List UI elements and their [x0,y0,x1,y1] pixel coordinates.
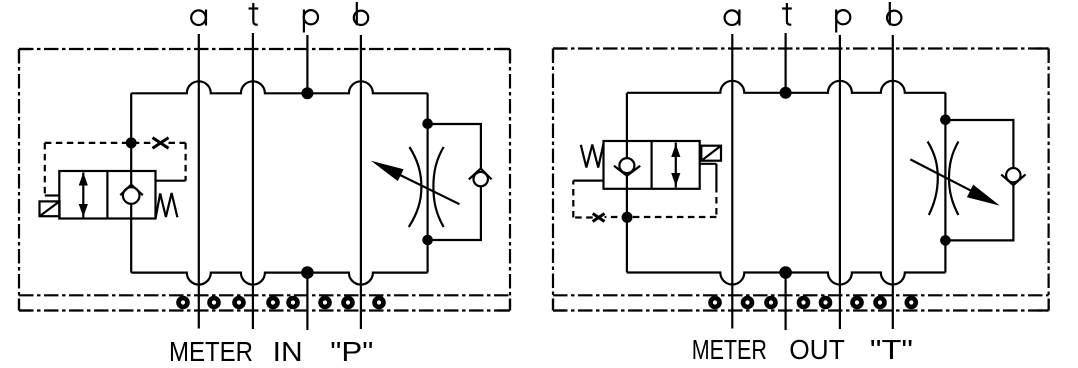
node: branch top [940,115,951,126]
check valve (bypass) [1001,168,1025,185]
port line b [360,35,362,329]
outer boundary (manifold envelope, dash-dot) [19,49,510,311]
outer boundary corner ticks [19,49,510,311]
node: t to top edge [780,87,792,99]
port line p (interrupted inside envelope) [306,35,308,330]
svg-text:"P": "P" [330,336,373,367]
port line b [892,35,894,329]
inner envelope left edge / valve flow line [130,93,132,272]
inner envelope left edge / valve flow line [626,93,628,273]
mounting-face line (dash-dot) [553,294,1049,296]
port letter a [725,10,740,26]
port letter a [191,10,206,26]
pilot connection to valve left side [45,194,60,196]
svg-text:METER: METER [692,334,767,365]
caption METER IN "P" [169,336,373,367]
spring (valve V1, right side) [156,193,178,218]
inner envelope right edge / flow-control line [427,93,429,272]
valve V2 body (2-position) [604,141,700,189]
caption METER OUT "T" [692,334,913,365]
port letter t [782,3,792,25]
valve V2 position divider [650,141,652,189]
check valve (bypass) [469,169,492,187]
port letter b [354,2,368,25]
port letter b [887,2,901,25]
flow control FC1 bypass branch [428,124,481,240]
pilot line (dashed) left drop [44,143,46,196]
outer boundary (manifold envelope, dash-dot) [553,49,1049,311]
pilot line (dashed) top run [45,142,152,144]
node: branch bottom [422,235,433,246]
adjustment arrow [910,159,1000,205]
port letter p [304,10,318,33]
pilot connection under solenoid [700,164,717,186]
node: branch top [422,118,433,129]
valve V1 check poppet (right box) [120,185,143,204]
pilot plug X [153,138,169,149]
port line a [731,34,733,329]
flow control FC2 bypass branch [945,120,1013,240]
valve V2 check poppet (left box) [614,158,640,176]
inner envelope right edge / flow-control line [944,93,946,273]
throttle arcs [409,147,422,227]
inner envelope top edge with bumps at a,p,b [627,81,946,93]
node: branch bottom [940,235,951,246]
svg-text:"T": "T" [870,334,913,365]
throttle arcs [928,142,938,216]
svg-text:METER: METER [169,336,253,367]
node: p to top edge [301,87,313,99]
inner envelope bottom edge with bumps at a,p,b [627,273,946,285]
pilot line (dashed) to left corner [573,181,592,218]
adjustment arrow [371,161,460,204]
pilot junction node [126,137,137,148]
pilot line (dashed) to right corner [169,143,186,181]
svg-text:OUT: OUT [789,334,845,365]
pilot plug X [593,214,605,222]
valve V2 flow arrow (right box) [671,143,680,188]
pilot connection to valve left side [573,180,603,182]
solenoid S1 [40,201,60,216]
pilot connection to valve right side [156,180,186,182]
svg-text:IN: IN [273,336,303,367]
port letter t [249,3,259,25]
pilot line (dashed) right drop [715,186,717,217]
spring (valve V2, left side) [581,143,604,168]
port line p [839,35,841,329]
valve V1 flow arrow (left box) [79,173,88,218]
interface seal rings [176,296,386,310]
port line a [198,34,200,329]
valve V1 body (2-position) [59,171,155,219]
mounting-face line (dash-dot) [19,294,510,296]
node: p to bottom edge [301,266,314,279]
inner envelope bottom edge with bumps at a,t,b [131,273,427,285]
inner envelope top edge with bumps at a,t,b [131,81,427,93]
valve V1 position divider [106,171,108,219]
port line t [252,33,254,329]
solenoid S2 [701,146,721,161]
pilot line (dashed) bottom run [605,216,717,218]
port letter p [836,10,850,33]
interface seal rings [708,296,918,310]
port line t (interrupted inside envelope) [784,33,786,330]
outer boundary corner ticks [553,49,1049,311]
pilot junction node [622,212,633,223]
node: t to bottom edge [779,266,792,279]
